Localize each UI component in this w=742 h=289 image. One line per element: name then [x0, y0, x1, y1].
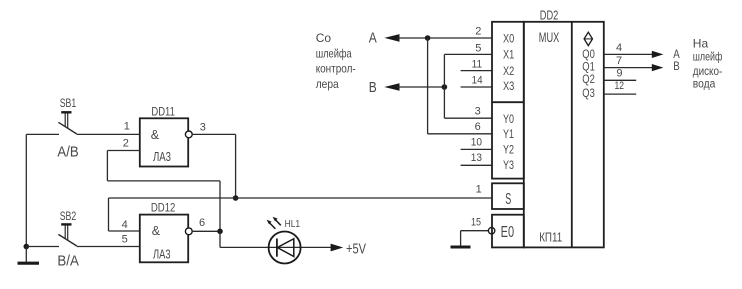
wire: E0 pin 15 [461, 230, 489, 232]
text: На шлейф дисковода [693, 37, 723, 91]
wire: A line to MUX X0 [397, 37, 492, 39]
svg-text:3: 3 [200, 121, 206, 133]
svg-text:лера: лера [316, 77, 339, 91]
svg-text:4: 4 [616, 42, 622, 54]
svg-text:Q3: Q3 [582, 88, 595, 100]
svg-text:10: 10 [471, 137, 482, 149]
svg-text:А: А [369, 30, 377, 46]
LED HL1 [269, 232, 301, 264]
svg-text:КП11: КП11 [539, 230, 562, 245]
svg-text:HL1: HL1 [285, 218, 301, 230]
svg-text:шлейфа: шлейфа [316, 47, 352, 61]
node: junction at SB2 / ground [24, 244, 30, 250]
svg-text:Q1: Q1 [582, 62, 595, 74]
svg-text:5: 5 [475, 42, 481, 54]
text: Со шлейфа контроллера [316, 31, 356, 91]
+5V arrow [331, 244, 344, 252]
svg-text:13: 13 [471, 152, 482, 164]
svg-text:4: 4 [122, 219, 128, 231]
wire: Q0 output pin 4 [604, 53, 653, 55]
wire: DD11 pin3 output to S line [193, 134, 236, 198]
svg-text:X1: X1 [503, 50, 514, 62]
svg-text:вода: вода [693, 76, 716, 90]
svg-text:Y2: Y2 [503, 144, 514, 156]
svg-text:На: На [693, 37, 709, 51]
ground (left) [18, 247, 40, 264]
wire: left vertical bus from SB1 to SB2 [25, 134, 27, 246]
svg-text:SB1: SB1 [60, 98, 76, 110]
svg-text:DD11: DD11 [151, 106, 175, 118]
svg-text:А/В: А/В [57, 145, 78, 161]
wire: Q1 output pin 7 [604, 67, 653, 69]
ground (at E0) [451, 231, 471, 247]
svg-text:DD12: DD12 [151, 202, 176, 214]
svg-text:Со: Со [316, 31, 332, 45]
wire: S line to MUX pin 1 [109, 197, 493, 199]
wire: SB2 to DD12 pin5 [77, 246, 140, 248]
svg-text:X3: X3 [503, 81, 514, 93]
wire: LED line to +5V arrow [220, 246, 332, 248]
svg-text:E0: E0 [501, 224, 515, 241]
arrow A to drive [652, 51, 664, 58]
wire: down to DD12 pin4 [109, 198, 140, 231]
svg-text:6: 6 [199, 217, 205, 229]
wire: DD12 pin6 output [193, 230, 220, 232]
wire: Y2 stub pin 10 [461, 148, 492, 150]
wire: junction down to LED line [219, 231, 221, 247]
svg-text:В/А: В/А [57, 254, 79, 270]
svg-text:1: 1 [476, 183, 482, 195]
inversion bubble at E0 [488, 228, 494, 234]
svg-text:S: S [505, 191, 511, 208]
node: junction on S line [233, 195, 239, 201]
svg-text:X0: X0 [503, 33, 514, 45]
svg-text:&: & [151, 128, 160, 142]
svg-text:В: В [673, 61, 680, 73]
wire: B line to X1 vertical [397, 86, 444, 88]
LED emission arrows [267, 217, 281, 229]
svg-text:6: 6 [475, 121, 481, 133]
three-state diamond symbol [584, 32, 592, 45]
wire: Y3 stub pin 13 [461, 164, 492, 166]
node: junction at DD12 output [217, 229, 223, 235]
svg-text:14: 14 [472, 75, 483, 87]
svg-text:15: 15 [471, 216, 481, 228]
svg-text:&: & [152, 224, 161, 238]
svg-text:MUX: MUX [539, 30, 560, 45]
svg-text:SB2: SB2 [60, 211, 76, 223]
svg-text:контрол-: контрол- [316, 62, 356, 76]
arrow B to controller [369, 80, 400, 96]
node: junction on A line [425, 35, 431, 41]
svg-text:5: 5 [122, 233, 128, 245]
wire: Q3 stub pin 12 [604, 93, 636, 95]
svg-text:Q0: Q0 [582, 49, 595, 61]
pushbutton SB1 [26, 112, 77, 134]
svg-text:+5V: +5V [346, 242, 366, 258]
arrow A to controller [369, 30, 400, 46]
wire: X3 stub pin 14 [461, 86, 492, 88]
wire: SB1 to DD11 pin1 [77, 133, 140, 135]
node: junction on B line [442, 84, 448, 90]
wire: X1 elbow down to Y0 [444, 54, 492, 118]
arrow B to drive [652, 64, 664, 71]
svg-text:X2: X2 [503, 66, 514, 78]
svg-text:2: 2 [475, 25, 481, 37]
svg-text:В: В [369, 80, 377, 96]
wire: DD11 pin2 feedback from DD12 output [107, 151, 220, 232]
wire: X2 stub pin 11 [461, 70, 492, 72]
svg-text:А: А [673, 49, 680, 61]
svg-text:шлейф: шлейф [693, 50, 723, 64]
svg-text:9: 9 [616, 68, 622, 80]
svg-text:3: 3 [475, 106, 481, 118]
svg-text:2: 2 [123, 137, 129, 149]
svg-text:DD2: DD2 [540, 8, 559, 22]
svg-text:1: 1 [124, 120, 130, 132]
nand gate DD12 [140, 215, 192, 263]
svg-text:ЛА3: ЛА3 [153, 150, 171, 164]
svg-text:7: 7 [616, 55, 622, 67]
svg-text:Y0: Y0 [503, 114, 514, 126]
pushbutton SB2 [26, 224, 77, 246]
svg-text:ЛА3: ЛА3 [153, 248, 171, 262]
wire: A line down to Y1 [428, 38, 492, 134]
nand gate DD11 [140, 118, 192, 166]
wire: Q2 stub pin 9 [604, 79, 636, 81]
svg-text:Y3: Y3 [503, 160, 514, 172]
svg-text:11: 11 [472, 59, 483, 71]
svg-text:Q2: Q2 [582, 74, 595, 86]
svg-text:Y1: Y1 [503, 129, 514, 141]
svg-text:12: 12 [615, 80, 625, 92]
multiplexer DD2 [492, 22, 604, 248]
